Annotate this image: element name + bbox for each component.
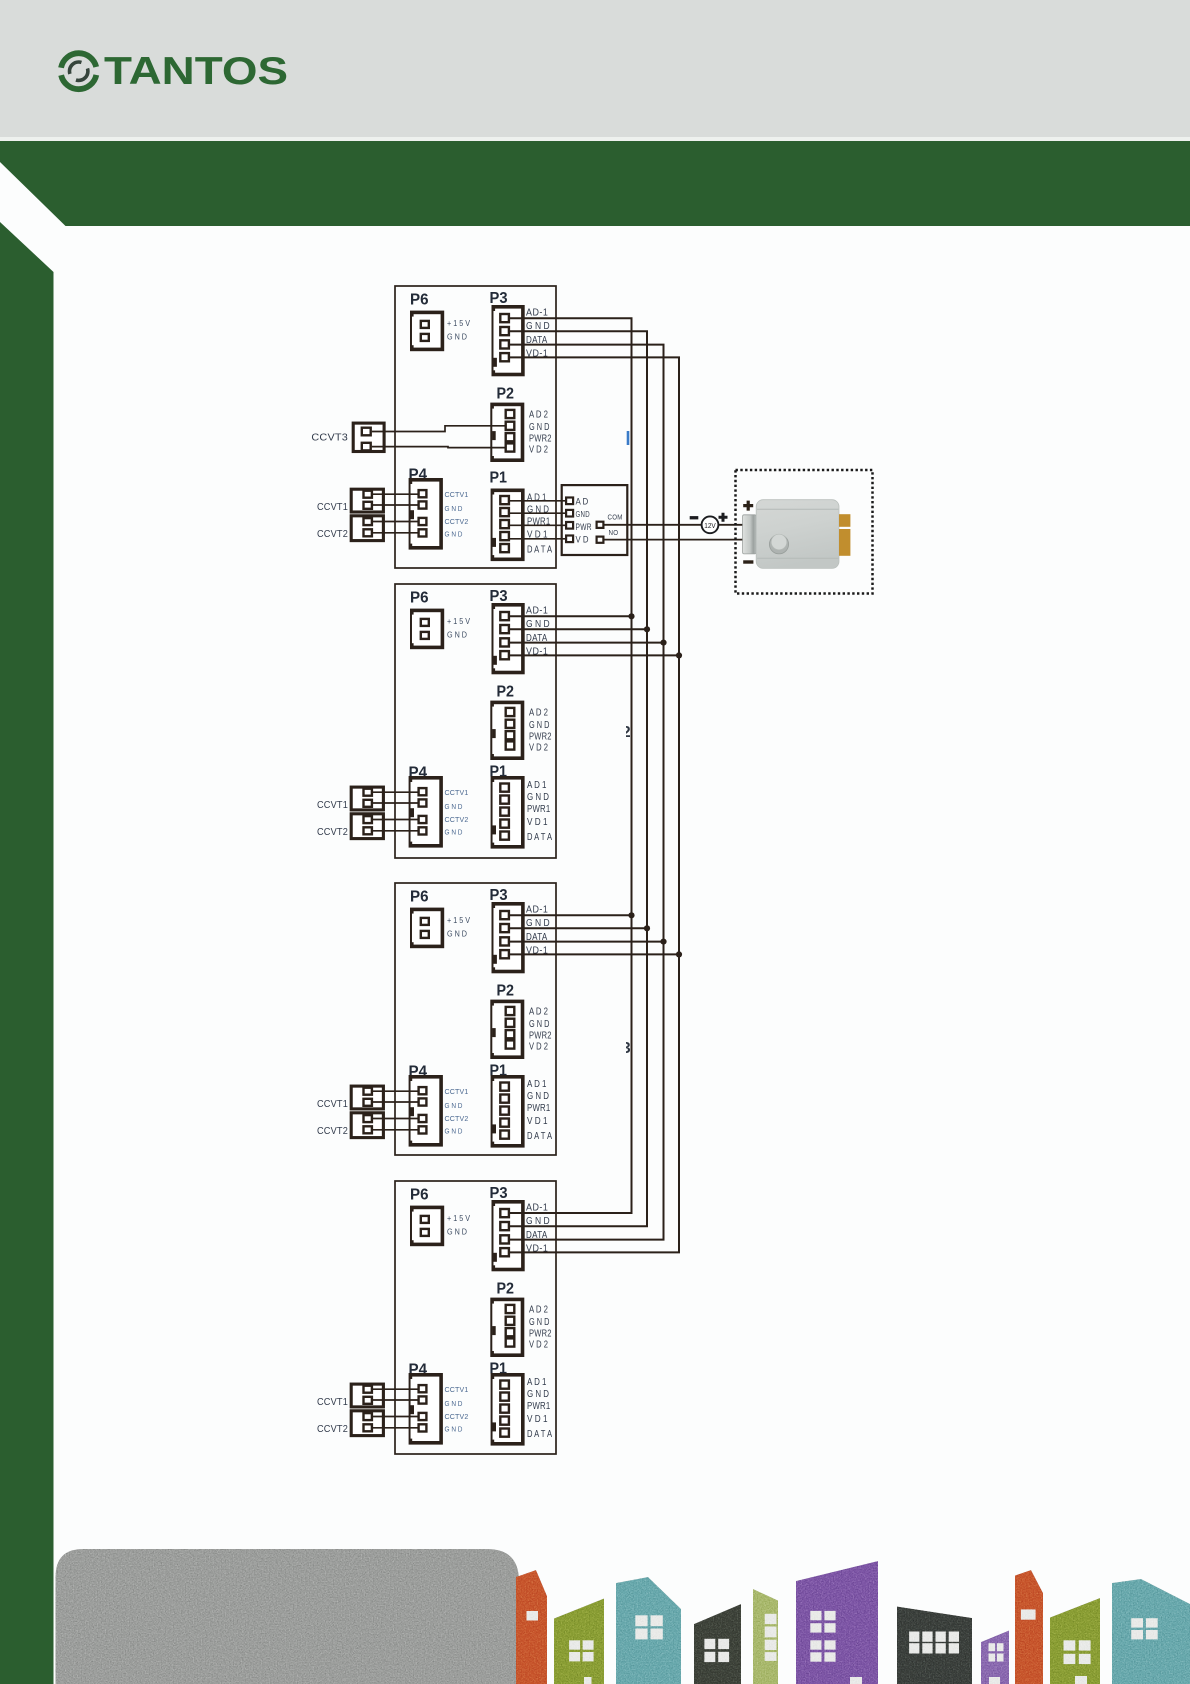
building 7 dark grey wide (897, 1607, 972, 1684)
svg-text:CCVT2: CCVT2 (317, 1424, 348, 1435)
junction block2 VD-1 (676, 652, 682, 658)
svg-text:V D 1: V D 1 (527, 817, 548, 828)
wire block2 P3 VD-1 to bus (510, 654, 680, 656)
relay module board (562, 485, 628, 555)
wire P1 VD1 to relay module (510, 538, 566, 540)
svg-text:A D 1: A D 1 (527, 780, 547, 791)
svg-text:PWR1: PWR1 (527, 804, 551, 815)
wire CCVT3 pin2 to P2 VD2 (372, 447, 505, 448)
svg-text:P2: P2 (497, 983, 515, 1000)
wire CCVT2 pin2 to P4 GND (block 3) (373, 1129, 418, 1131)
wire relay COM to lock(+) (604, 524, 743, 526)
svg-text:PWR2: PWR2 (529, 1329, 552, 1340)
wire CCVT2 pin2 to P4 GND (block 4) (373, 1427, 418, 1429)
building 11 teal (1112, 1579, 1190, 1684)
svg-text:P3: P3 (490, 887, 508, 904)
svg-text:G N D: G N D (445, 1399, 463, 1408)
svg-text:CCTV2: CCTV2 (445, 1114, 469, 1123)
svg-text:P6: P6 (410, 590, 429, 607)
wire bus net AD-1 (block1 P3 to block4 P3) (510, 318, 632, 1213)
wire CCVT1 pin2 to P4 GND (block 1) (373, 504, 418, 506)
connector CCVT1 (block 1) (351, 489, 383, 512)
svg-text:CCTV1: CCTV1 (445, 1087, 469, 1096)
label plus (power) (719, 513, 728, 522)
svg-text:D A T A: D A T A (527, 832, 552, 843)
power source 12V (702, 516, 719, 533)
building 2 olive (554, 1599, 604, 1684)
wire P1 GND to relay module (510, 512, 566, 514)
wire bus net GND (block1 P3 to block4 P3) (510, 331, 648, 1226)
wire block2 P3 GND to bus (510, 628, 648, 630)
wire relay NO to lock(-) (604, 539, 743, 541)
green header band (0, 141, 1190, 226)
svg-text:A D 2: A D 2 (529, 1305, 548, 1316)
svg-text:AD-1: AD-1 (526, 905, 548, 916)
wire CCVT1 pin2 to P4 GND (block 4) (373, 1399, 418, 1401)
wire CCVT1 pin2 to P4 GND (block 2) (373, 802, 418, 804)
svg-text:TANTOS: TANTOS (104, 50, 288, 93)
svg-text:D A T A: D A T A (527, 1429, 552, 1440)
svg-text:G N D: G N D (445, 1101, 463, 1110)
relay COM contact (597, 522, 604, 528)
svg-text:G N D: G N D (529, 720, 549, 731)
svg-text:G N D: G N D (445, 1425, 463, 1434)
svg-text:PWR: PWR (576, 522, 592, 532)
svg-text:G N D: G N D (527, 1091, 549, 1102)
wire CCVT2 pin2 to P4 GND (block 2) (373, 830, 418, 832)
svg-text:P6: P6 (410, 889, 429, 906)
svg-text:A D 2: A D 2 (529, 1007, 548, 1018)
svg-text:G N D: G N D (529, 422, 549, 433)
svg-text:P3: P3 (490, 588, 508, 605)
svg-text:G N D: G N D (529, 1317, 549, 1328)
wire CCVT2 pin1 to P4 CCTV2 (block 1) (373, 521, 418, 523)
building 8 small purple (981, 1631, 1009, 1684)
svg-text:CCVT1: CCVT1 (317, 502, 348, 513)
connector CCVT2 (block 2) (351, 814, 383, 839)
svg-text:P3: P3 (490, 1185, 508, 1202)
wire block3 P3 VD-1 to bus (510, 953, 680, 955)
svg-text:3: 3 (622, 1040, 631, 1057)
svg-text:P1: P1 (490, 470, 508, 487)
wire CCVT2 pin2 to P4 GND (block 1) (373, 532, 418, 534)
svg-text:2: 2 (622, 724, 631, 741)
building 10 olive (1050, 1598, 1100, 1684)
junction block2 AD-1 (628, 613, 634, 619)
svg-text:PWR2: PWR2 (529, 1031, 552, 1042)
connector CCVT2 (block 1) (351, 516, 383, 541)
electric lock body (743, 500, 851, 569)
connector CCVT2 (block 3) (351, 1113, 383, 1138)
junction block3 DATA (660, 939, 666, 945)
svg-text:V D 1: V D 1 (527, 1414, 548, 1425)
green left sidebar (0, 222, 54, 1684)
svg-text:CCTV1: CCTV1 (445, 1385, 469, 1394)
building 5 light olive (753, 1589, 778, 1684)
svg-text:A D: A D (576, 496, 589, 507)
svg-text:PWR2: PWR2 (529, 434, 552, 445)
wire block2 P3 AD-1 to bus (510, 615, 632, 617)
label minus (lock) (743, 560, 753, 563)
label plus (lock) (743, 501, 753, 511)
building 6 purple (796, 1561, 878, 1684)
label minus (power) (690, 516, 699, 519)
connector CCVT3 (353, 423, 384, 451)
junction block3 VD-1 (676, 951, 682, 957)
wire bus net DATA (block1 P3 to block4 P3) (510, 345, 664, 1240)
wire block3 P3 DATA to bus (510, 941, 664, 943)
svg-text:V D 1: V D 1 (527, 1116, 548, 1127)
connector CCVT2 (block 4) (351, 1411, 383, 1436)
svg-text:NO: NO (609, 528, 619, 537)
svg-text:12V: 12V (704, 521, 716, 530)
svg-text:G N D: G N D (445, 828, 463, 837)
svg-text:V D 2: V D 2 (529, 743, 548, 754)
building 3 teal (616, 1577, 681, 1684)
wire CCVT2 pin1 to P4 CCTV2 (block 4) (373, 1416, 418, 1418)
svg-text:PWR1: PWR1 (527, 1103, 551, 1114)
monitor block 2 (395, 584, 556, 858)
TANTOS logo icon (61, 53, 97, 89)
wire CCVT1 pin1 to P4 CCTV1 (block 4) (373, 1388, 418, 1390)
svg-text:CCTV1: CCTV1 (445, 788, 469, 797)
svg-text:G N D: G N D (445, 530, 463, 539)
svg-text:G N D: G N D (527, 1389, 549, 1400)
svg-text:CCTV2: CCTV2 (445, 517, 469, 526)
svg-text:A D 2: A D 2 (529, 708, 548, 719)
relay NO contact (597, 537, 604, 543)
svg-text:P6: P6 (410, 1187, 429, 1204)
wire CCVT1 pin1 to P4 CCTV1 (block 2) (373, 791, 418, 793)
svg-text:+ 1 5 V: + 1 5 V (447, 916, 470, 925)
svg-text:PWR1: PWR1 (527, 1401, 551, 1412)
svg-text:CCVT1: CCVT1 (317, 1099, 348, 1110)
svg-text:AD-1: AD-1 (526, 308, 548, 319)
dashed enclosure box for lock (736, 470, 873, 594)
svg-text:P6: P6 (410, 292, 429, 309)
building 4 dark grey (694, 1604, 741, 1684)
svg-text:CCTV2: CCTV2 (445, 1412, 469, 1421)
svg-text:G N D: G N D (447, 333, 467, 342)
svg-text:CCVT2: CCVT2 (317, 827, 348, 838)
svg-text:G N D: G N D (527, 792, 549, 803)
svg-text:V D 2: V D 2 (529, 1042, 548, 1053)
svg-text:P3: P3 (490, 290, 508, 307)
building 9 orange (1015, 1570, 1043, 1684)
junction block2 GND (644, 626, 650, 632)
svg-text:CCVT2: CCVT2 (317, 1126, 348, 1137)
wire CCVT1 pin2 to P4 GND (block 3) (373, 1101, 418, 1103)
wire CCVT1 pin1 to P4 CCTV1 (block 3) (373, 1090, 418, 1092)
svg-text:V D 2: V D 2 (529, 1340, 548, 1351)
svg-text:D A T A: D A T A (527, 544, 552, 555)
svg-text:G N D: G N D (529, 1019, 549, 1030)
svg-text:G N D: G N D (447, 631, 467, 640)
wire CCVT2 pin1 to P4 CCTV2 (block 2) (373, 819, 418, 821)
footer textured group (56, 1549, 1190, 1684)
svg-text:G N D: G N D (445, 1127, 463, 1136)
svg-text:+ 1 5 V: + 1 5 V (447, 617, 470, 626)
wire P1 PWR1 to relay module (510, 524, 566, 526)
header grey band (0, 0, 1190, 137)
stray mark "1" (blue) (627, 431, 630, 445)
wire P1 AD1 to relay module (510, 500, 566, 502)
svg-text:A D 2: A D 2 (529, 410, 548, 421)
svg-text:P2: P2 (497, 684, 515, 701)
wire bus net VD-1 (block1 P3 to block4 P3) (510, 357, 680, 1252)
svg-text:G N D: G N D (445, 504, 463, 513)
wire CCVT2 pin1 to P4 CCTV2 (block 3) (373, 1118, 418, 1120)
svg-text:CCVT1: CCVT1 (317, 800, 348, 811)
svg-text:V D 2: V D 2 (529, 445, 548, 456)
svg-text:A D 1: A D 1 (527, 1079, 547, 1090)
wire CCVT1 pin1 to P4 CCTV1 (block 1) (373, 493, 418, 495)
wire CCVT3 pin1 to P2 GND (372, 426, 505, 432)
junction block3 AD-1 (628, 912, 634, 918)
svg-text:CCVT2: CCVT2 (317, 529, 348, 540)
wire block3 P3 GND to bus (510, 927, 648, 929)
svg-text:V D: V D (576, 534, 589, 545)
svg-text:PWR2: PWR2 (529, 732, 552, 743)
svg-text:CCVT1: CCVT1 (317, 1397, 348, 1408)
svg-text:CCTV1: CCTV1 (445, 490, 469, 499)
wire block3 P3 AD-1 to bus (510, 914, 632, 916)
svg-text:+ 1 5 V: + 1 5 V (447, 1214, 470, 1223)
grey footer wave shape (56, 1549, 520, 1684)
junction block3 GND (644, 925, 650, 931)
connector CCVT1 (block 2) (351, 787, 383, 810)
svg-text:A D 1: A D 1 (527, 1377, 547, 1388)
svg-text:+ 1 5 V: + 1 5 V (447, 319, 470, 328)
svg-text:G N D: G N D (445, 802, 463, 811)
svg-text:GND: GND (576, 509, 590, 519)
monitor block 3 (395, 883, 556, 1155)
svg-text:COM: COM (608, 513, 623, 522)
connector CCVT1 (block 3) (351, 1086, 383, 1109)
svg-text:AD-1: AD-1 (526, 606, 548, 617)
monitor block 4 (395, 1181, 556, 1454)
svg-text:P2: P2 (497, 1281, 515, 1298)
svg-text:CCVT3: CCVT3 (311, 433, 348, 444)
monitor block 1 (395, 286, 556, 568)
connector CCVT1 (block 4) (351, 1384, 383, 1407)
junction block2 DATA (660, 640, 666, 646)
svg-text:AD-1: AD-1 (526, 1203, 548, 1214)
svg-text:D A T A: D A T A (527, 1131, 552, 1142)
svg-text:P2: P2 (497, 386, 515, 403)
building 1 orange (516, 1570, 547, 1684)
svg-text:G N D: G N D (447, 1228, 467, 1237)
svg-text:G N D: G N D (447, 930, 467, 939)
svg-text:CCTV2: CCTV2 (445, 815, 469, 824)
wire block2 P3 DATA to bus (510, 642, 664, 644)
